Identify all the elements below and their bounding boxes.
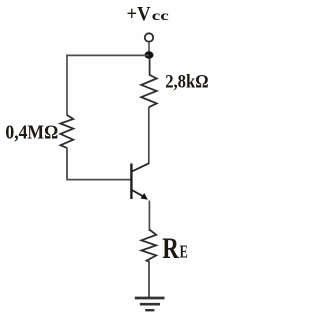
resistor R1 0,4M — [60, 115, 73, 148]
label +Vcc — [127, 3, 169, 25]
svg-text:2,8kΩ: 2,8kΩ — [165, 71, 208, 92]
wire base horizontal — [66, 179, 131, 181]
junction dot — [145, 51, 154, 58]
wire left vertical lower — [66, 148, 68, 179]
svg-text:0,4MΩ: 0,4MΩ — [5, 122, 58, 144]
resistor R2 2,8k — [141, 58, 157, 107]
label RE — [162, 233, 188, 265]
transistor Q1 — [131, 163, 149, 200]
wire top horizontal — [66, 54, 149, 56]
wire collector vertical — [148, 107, 150, 164]
svg-text:E: E — [180, 242, 188, 262]
wire terminal stem — [148, 42, 150, 52]
svg-text:R: R — [162, 233, 179, 265]
ground — [135, 298, 165, 310]
svg-text:+V: +V — [127, 3, 152, 25]
svg-text:cc: cc — [152, 9, 169, 24]
wire to ground — [148, 261, 150, 298]
wire left vertical upper — [66, 55, 68, 116]
node +Vcc terminal — [145, 33, 153, 41]
resistor RE zigzag — [141, 230, 156, 262]
wire emitter vertical — [148, 201, 150, 232]
